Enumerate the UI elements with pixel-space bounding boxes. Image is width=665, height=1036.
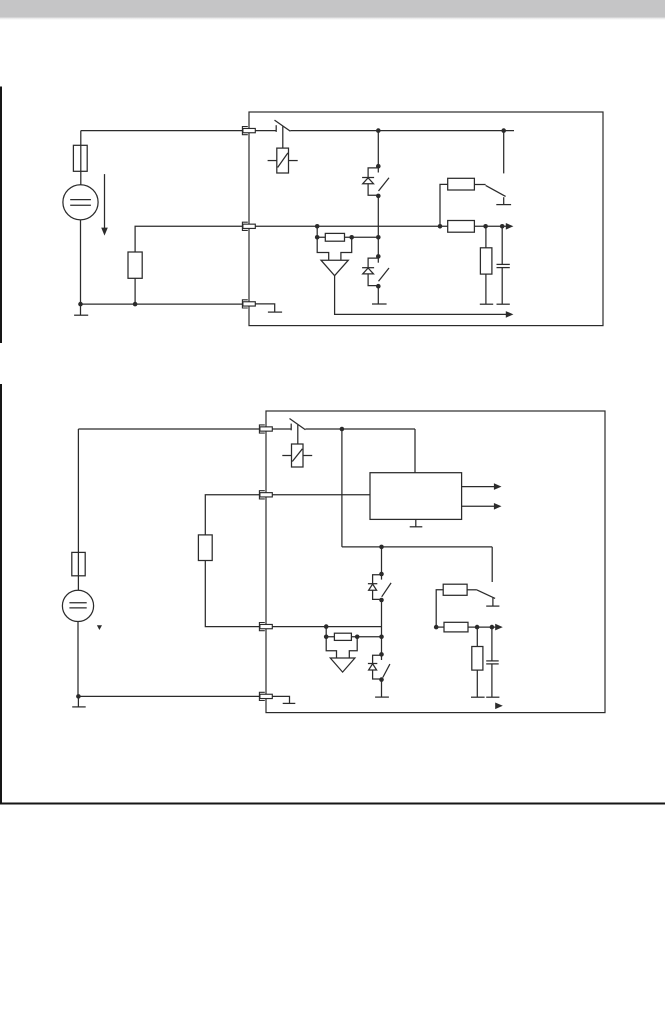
comparator U1 input wires	[317, 237, 352, 260]
logic block output arrow 2	[462, 503, 502, 510]
wire terminal 3 into box (fig2)	[272, 626, 381, 628]
wire rail to clamp D1 (fig1)	[377, 131, 379, 167]
switch S3 blade (fig1)	[486, 185, 506, 196]
sense resistor R6	[334, 633, 351, 640]
wire terminal 1 to switch S5	[272, 428, 291, 430]
wire R9 bottom (fig2)	[476, 670, 478, 697]
ground bar under C1 (fig1)	[497, 303, 510, 305]
switch S5 blade	[290, 419, 306, 430]
internal ground bar under clamp (fig1)	[372, 303, 387, 305]
internal ground bar under clamp (fig2)	[375, 696, 389, 698]
terminal 2 (output) fig1	[242, 222, 255, 230]
terminal 3 (L-) fig1	[242, 300, 255, 308]
wire source column through fuse (fig2)	[77, 429, 79, 590]
wire rail branch down (fig2)	[341, 429, 343, 547]
resistor R8	[444, 622, 468, 632]
wire internal rail down to contact (fig2)	[491, 547, 493, 582]
wire clamp D1 to mid rail (fig1)	[377, 196, 379, 257]
output arrow 2 (fig1)	[506, 311, 514, 318]
chassis ground at terminal 4 (fig2)	[272, 696, 295, 703]
wire R8 to output arrow (fig2)	[436, 626, 495, 628]
node: load resistor on return wire (fig1)	[133, 302, 138, 307]
wire mid rail terminal 2 to R3 (fig1)	[255, 225, 447, 227]
comparator U1	[321, 260, 348, 276]
output arrow 1 (fig2)	[495, 624, 503, 631]
capacitor C1	[497, 264, 510, 267]
wire source column through fuse (fig1)	[80, 131, 82, 185]
page frame figure 2	[1, 384, 665, 804]
wire L+ from source to terminal 1 (fig1)	[81, 130, 243, 132]
terminal 1 (L+) fig1	[242, 127, 255, 135]
wire bottom return to terminal 3 (fig1)	[81, 303, 243, 305]
wire L+ rail fig2	[305, 428, 415, 430]
resistor R2 right wire (fig1)	[474, 184, 485, 186]
output arrow 2 (fig2)	[495, 703, 503, 710]
comparator U2 input wires	[326, 637, 357, 658]
wire clamp D4 to internal ground (fig2)	[381, 680, 383, 697]
resistor R3	[448, 221, 475, 233]
wire load resistor to terminal 3 (fig2)	[205, 561, 259, 627]
wire R9 top (fig2)	[476, 627, 478, 646]
logic block U3	[370, 473, 462, 520]
wire bottom return to terminal 4 (fig2)	[78, 695, 259, 697]
resistor R7 left wire (fig2)	[436, 590, 443, 627]
wire C1 top (fig1)	[501, 226, 503, 264]
node: rail / clamp branch (fig1)	[376, 128, 381, 133]
relay K2 actuating link	[297, 425, 299, 444]
comparator U2	[330, 658, 355, 672]
wire C2 bottom (fig2)	[491, 664, 493, 697]
wire L+ rail fig1	[290, 130, 514, 132]
wire terminal 2 to logic block (fig2)	[272, 494, 370, 496]
node: rail / switch branch (fig1)	[501, 128, 506, 133]
wire clamp D3 down (fig2)	[381, 600, 383, 654]
resistor R2	[448, 178, 475, 190]
wire comparator output to arrow (fig1)	[335, 276, 506, 315]
chassis ground at terminal 3 (fig1)	[255, 304, 282, 312]
ground symbol at source (fig1)	[74, 304, 88, 315]
relay coil K1	[268, 148, 298, 173]
suppressor diode D4 with switch S7	[368, 652, 390, 682]
wire source minus to ground node (fig1)	[80, 220, 82, 304]
node: mid rail / sense branch (fig1)	[315, 224, 320, 229]
current direction arrow (fig1)	[101, 174, 108, 236]
node: R6 right / comparator tap (fig2)	[355, 635, 360, 640]
node: clamp column at R6 row (fig2)	[379, 635, 384, 640]
wire rail to clamp D3 (fig2)	[381, 547, 383, 574]
switch S3 fixed contact (fig1)	[496, 197, 511, 204]
wire terminal 2 to load resistor (fig1)	[135, 226, 243, 252]
relay coil K2	[282, 444, 312, 467]
switch S1 blade	[275, 120, 291, 131]
node: output / C1 branch (fig1)	[500, 224, 505, 229]
node: output / C2 branch (fig2)	[490, 625, 495, 630]
node: R5 right / comparator tap (fig1)	[349, 235, 354, 240]
switch S8 fixed contact (fig2)	[486, 598, 499, 606]
node: internal rail / clamp (fig2)	[379, 545, 384, 550]
node: sense branch (fig2)	[324, 624, 329, 629]
figure 2: sensor block enclosure box	[266, 411, 605, 713]
node: R5 left (fig1)	[315, 235, 320, 240]
node: mid rail / R2 branch (fig1)	[438, 224, 443, 229]
suppressor diode D3 with switch S6	[368, 572, 391, 603]
voltage source G2 (DC)	[62, 590, 93, 621]
fuse F1	[73, 145, 87, 171]
resistor R9	[472, 647, 483, 671]
wire terminal 2 to load resistor (fig2)	[205, 495, 259, 535]
switch S8 blade (fig2)	[477, 590, 495, 599]
polarity marker triangle (fig2)	[97, 625, 102, 630]
wire R5 to clamp column (fig1)	[345, 236, 379, 238]
ground symbol at source (fig2)	[72, 696, 86, 707]
wire R3 to output arrow (fig1)	[474, 225, 506, 227]
fuse F2	[72, 552, 85, 575]
suppressor diode D1 with switch S2	[362, 164, 389, 198]
resistor R2 left wire (fig1)	[440, 184, 448, 226]
node: output / R9 branch (fig2)	[475, 625, 480, 630]
node: clamp column at R5 row (fig1)	[376, 235, 381, 240]
wire R4 bottom (fig1)	[485, 274, 487, 304]
wire down to sense resistor R6 (fig2)	[326, 627, 334, 637]
wire C1 bottom (fig1)	[501, 268, 503, 304]
resistor R7 right wire (fig2)	[467, 589, 477, 591]
output arrow 1 (fig1)	[506, 223, 514, 230]
wire rail down to logic block (fig2)	[414, 429, 416, 473]
wire clamp D2 to internal ground (fig1)	[377, 286, 379, 304]
relay K1 actuating link	[282, 126, 284, 148]
wire rail down to contact (fig1)	[503, 131, 505, 174]
load resistor R10	[198, 535, 212, 561]
terminal 1 (L+) fig2	[259, 425, 272, 433]
switch S5 contact	[290, 424, 292, 431]
sense resistor R5	[325, 233, 344, 241]
node: source/ground junction (fig2)	[76, 694, 81, 699]
wire R6 to clamp column (fig2)	[351, 636, 381, 638]
ground bar under R9 (fig2)	[471, 696, 485, 698]
resistor R4	[480, 248, 492, 274]
wire source minus to ground node (fig2)	[77, 622, 79, 697]
wire R4 top (fig1)	[485, 226, 487, 248]
ground bar under C2 (fig2)	[486, 696, 499, 698]
logic block output arrow 1	[462, 483, 502, 490]
page frame left rule figure 1	[0, 87, 2, 344]
wire internal rail (fig2)	[342, 546, 492, 548]
suppressor diode D2 with switch S4	[362, 254, 389, 288]
wire mid rail to sense resistor R5 (fig1)	[317, 226, 325, 237]
node: output / R4 branch (fig1)	[483, 224, 488, 229]
node: rail / logic branch (fig2)	[340, 427, 345, 432]
switch S1 contact	[275, 125, 277, 132]
resistor R7	[443, 584, 467, 595]
terminal 4 (L-) fig2	[259, 692, 272, 700]
terminal 3 fig2	[259, 623, 272, 631]
node: R6 left (fig2)	[324, 635, 329, 640]
figure 1: sensor block enclosure box	[249, 112, 603, 326]
wire C2 top (fig2)	[491, 627, 493, 661]
ground bar under R4 (fig1)	[480, 303, 493, 305]
node: R8 left (fig2)	[434, 625, 439, 630]
wire load resistor to return (fig1)	[134, 278, 136, 304]
terminal 2 fig2	[259, 491, 272, 499]
ground under logic block	[410, 519, 423, 526]
node: source/ground junction (fig1)	[78, 302, 83, 307]
wire L+ from source to terminal 1 (fig2)	[78, 428, 259, 430]
load resistor R1	[128, 252, 142, 278]
voltage source G1 (DC)	[63, 185, 98, 220]
wire terminal 1 to switch S1	[255, 130, 276, 132]
capacitor C2	[486, 661, 499, 664]
